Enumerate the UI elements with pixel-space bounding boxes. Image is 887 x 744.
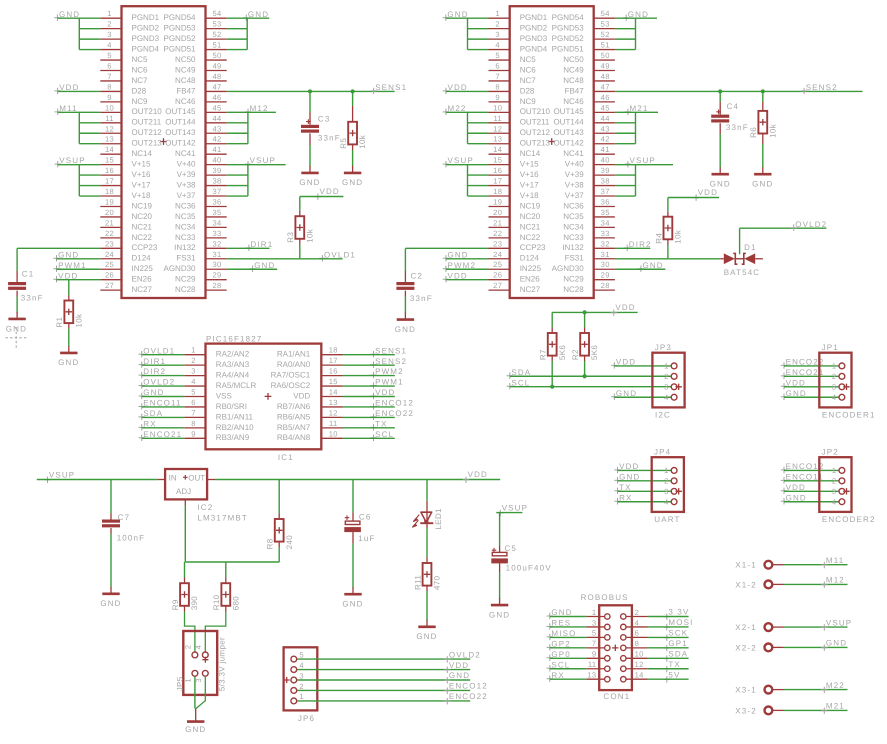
wire R6 to GND xyxy=(762,144,764,168)
IC U2 (right driver) pin 41 stub xyxy=(594,153,615,155)
svg-text:15: 15 xyxy=(493,156,502,165)
pad X1-1 xyxy=(765,561,773,569)
svg-text:VDD: VDD xyxy=(293,391,310,400)
svg-text:TX: TX xyxy=(619,483,632,492)
svg-text:24: 24 xyxy=(493,250,502,259)
svg-text:M21: M21 xyxy=(826,702,845,711)
JP5 origin + xyxy=(202,657,208,663)
wire GND pin54 xyxy=(227,17,270,19)
svg-text:RB7/AN6: RB7/AN6 xyxy=(277,402,311,411)
svg-text:VDD: VDD xyxy=(786,483,806,492)
svg-text:50: 50 xyxy=(212,51,221,60)
wire DIR1 to IC1 pin 2 xyxy=(142,364,185,366)
resistor R1 xyxy=(68,296,70,301)
wire CCP23 to C2 xyxy=(405,247,488,249)
svg-text:42: 42 xyxy=(601,135,610,144)
wire VSUP pin38 r xyxy=(615,185,636,187)
svg-text:PGND2: PGND2 xyxy=(132,24,160,33)
IC U2 (right driver) pin 14 stub xyxy=(489,153,510,155)
svg-text:37: 37 xyxy=(212,187,221,196)
svg-text:5K6: 5K6 xyxy=(558,345,567,360)
svg-text:M11: M11 xyxy=(59,104,77,113)
svg-text:52: 52 xyxy=(212,30,221,39)
wire GND pin53 r xyxy=(615,28,636,30)
wire RX to CON1 pin 13 xyxy=(550,678,587,680)
svg-text:9: 9 xyxy=(107,93,112,102)
svg-text:ENCO22: ENCO22 xyxy=(449,692,488,701)
svg-text:DIR1: DIR1 xyxy=(143,357,166,366)
svg-text:NC48: NC48 xyxy=(563,76,584,85)
wire C1 to GND xyxy=(16,297,18,313)
svg-text:6: 6 xyxy=(495,62,500,71)
svg-text:29: 29 xyxy=(212,271,221,280)
wire VDD down to R1 xyxy=(68,280,70,296)
IC2 ADJ pin stub xyxy=(184,499,186,505)
wire VDD rail from IC2 OUT xyxy=(215,479,500,481)
svg-text:GND: GND xyxy=(786,389,807,398)
svg-text:31: 31 xyxy=(212,250,221,259)
net VSUP pins40-37 rIC right: label xyxy=(625,161,631,167)
svg-text:SENS1: SENS1 xyxy=(375,346,407,355)
svg-text:NC49: NC49 xyxy=(175,65,196,74)
IC U1 (left driver) pin 2 stub xyxy=(100,28,121,30)
IC U1 (left driver) pin 34 stub xyxy=(206,226,227,228)
net GND pin24 rIC: label xyxy=(443,255,449,261)
IC U2 (right driver) pin 52 stub xyxy=(594,38,615,40)
svg-text:R4: R4 xyxy=(654,233,663,244)
svg-text:43: 43 xyxy=(212,124,221,133)
svg-text:TX: TX xyxy=(375,419,388,428)
CON1 pin 4 pad xyxy=(621,624,626,629)
wire VDD down to R2 xyxy=(584,312,586,327)
svg-text:47: 47 xyxy=(601,82,610,91)
net SCK at CON1 pin 6: label xyxy=(664,635,670,641)
svg-text:39: 39 xyxy=(212,166,221,175)
JP4 pin 3 pad xyxy=(671,488,677,494)
svg-text:VSUP: VSUP xyxy=(49,471,75,480)
net VDD at IC1 pin 14: label xyxy=(370,393,376,399)
svg-text:VSUP: VSUP xyxy=(502,503,528,512)
svg-text:36: 36 xyxy=(601,197,610,206)
connector JP1 origin + xyxy=(843,384,849,390)
IC U1 (left driver) pin 31 stub xyxy=(206,258,227,260)
CON1 pin 2 pad xyxy=(621,614,626,619)
svg-text:D124: D124 xyxy=(520,254,540,263)
wire VSUP pin15 r xyxy=(446,164,489,166)
net GND pins1-4 left: label GND xyxy=(54,15,60,21)
svg-text:VDD: VDD xyxy=(58,271,78,280)
JP3 pin 2 pad xyxy=(671,373,677,379)
svg-text:PWM2: PWM2 xyxy=(375,367,404,376)
svg-text:17: 17 xyxy=(105,177,114,186)
svg-text:IC2: IC2 xyxy=(197,503,213,512)
IC U1 (left driver) pin 11 stub xyxy=(100,122,121,124)
wire VDD pin26 r xyxy=(446,279,489,281)
svg-text:NC46: NC46 xyxy=(175,97,196,106)
wire VSUP pin15 xyxy=(58,164,101,166)
svg-text:28: 28 xyxy=(601,281,610,290)
wire R10 to JP5 pin4 xyxy=(205,612,226,652)
wire M21 pin44 xyxy=(615,122,636,124)
IC U2 (right driver) pin 34 stub xyxy=(594,226,615,228)
svg-text:9: 9 xyxy=(495,93,500,102)
svg-text:PGND51: PGND51 xyxy=(552,44,585,53)
IC U1 (left driver) pin 18 stub xyxy=(100,195,121,197)
wire VSUP from X2-1 xyxy=(784,626,848,628)
svg-text:D1: D1 xyxy=(744,243,757,252)
svg-text:PWM1: PWM1 xyxy=(58,261,87,270)
svg-text:GND: GND xyxy=(616,389,637,398)
svg-text:34: 34 xyxy=(601,218,610,227)
connector JP5 (jumper) body xyxy=(183,631,217,695)
IC U1 (left driver) pin 30 stub xyxy=(206,268,227,270)
label M21 (X3-2) xyxy=(821,708,827,714)
IC U2 (right driver) pin 23 stub xyxy=(489,247,510,249)
svg-text:PGND1: PGND1 xyxy=(520,13,548,22)
CON1 pin 12 stub xyxy=(626,668,648,670)
svg-text:26: 26 xyxy=(493,271,502,280)
net SDA at CON1 pin 10: label xyxy=(664,655,670,661)
IC U2 (right driver) pin 48 stub xyxy=(594,80,615,82)
IC U2 (right driver) pin 50 stub xyxy=(594,59,615,61)
junction SENS1/C3 xyxy=(308,89,312,93)
IC U1 (left driver) pin 35 stub xyxy=(206,216,227,218)
ground below C2 xyxy=(404,313,406,320)
svg-text:4: 4 xyxy=(832,497,837,506)
svg-text:FS31: FS31 xyxy=(176,254,196,263)
wire GND pin4 r xyxy=(468,49,489,51)
IC U2 (right driver) pin 36 stub xyxy=(594,205,615,207)
wire ENCO21 to IC1 pin 9 xyxy=(142,437,185,439)
label GND (JP6) xyxy=(444,677,450,683)
wire M11 bus vertical xyxy=(78,112,80,143)
svg-text:NC5: NC5 xyxy=(520,55,537,64)
IC U1 (left driver) pin 8 stub xyxy=(100,90,121,92)
JP6 pin 1 pad xyxy=(291,698,297,704)
svg-text:R2: R2 xyxy=(571,349,580,360)
svg-text:LED1: LED1 xyxy=(434,508,443,530)
wire TX from IC1 pin 11 xyxy=(343,427,395,429)
wire VSUP stub at C5 xyxy=(496,512,522,514)
capacitor C6 (polarized) xyxy=(352,513,354,522)
svg-text:SCL: SCL xyxy=(375,430,394,439)
svg-text:NC29: NC29 xyxy=(563,275,584,284)
svg-text:NC50: NC50 xyxy=(563,55,584,64)
svg-text:470: 470 xyxy=(433,575,442,590)
svg-text:M22: M22 xyxy=(826,681,845,690)
wire VSUP pin18 r xyxy=(468,195,489,197)
wire VSUP bus rIC r xyxy=(635,165,637,196)
label ENCO12 (JP6) xyxy=(444,688,450,694)
CON1 pin 10 stub xyxy=(626,657,648,659)
wire M21 from X3-2 xyxy=(784,709,848,711)
wire M12 pin45 xyxy=(227,111,276,113)
IC1 pin 16 stub xyxy=(321,375,342,377)
svg-text:RB3/AN9: RB3/AN9 xyxy=(216,433,250,442)
net GND pins54-51 rIC: label xyxy=(623,15,629,21)
net GND pin24: label xyxy=(53,255,59,261)
net VSUP pins15-18: label xyxy=(55,161,61,167)
svg-text:VSUP: VSUP xyxy=(826,618,852,627)
JP2 pin 3 pad xyxy=(839,488,845,494)
resistor R10 xyxy=(225,578,227,584)
label VSUP (X2-1) xyxy=(821,624,827,630)
svg-text:4: 4 xyxy=(664,393,669,402)
svg-text:NC22: NC22 xyxy=(132,233,153,242)
IC U2 (right driver) pin 29 stub xyxy=(594,279,615,281)
svg-text:44: 44 xyxy=(601,114,610,123)
wire M22 pin12 xyxy=(468,132,489,134)
wire ENCO21 to JP1 pin 2 xyxy=(784,375,839,377)
wire GND pin2 r xyxy=(468,28,489,30)
IC2 OUT pin stub xyxy=(207,479,215,481)
wire VDD to JP1 pin 3 xyxy=(784,386,839,388)
X1-1 stub xyxy=(773,564,784,566)
wire M12 pin42 xyxy=(227,143,248,145)
X2-2 stub xyxy=(773,646,784,648)
svg-text:42: 42 xyxy=(212,135,221,144)
svg-text:JP1: JP1 xyxy=(822,343,839,352)
label VDD above R3 xyxy=(315,194,321,200)
IC U2 (right driver) pin 51 stub xyxy=(594,49,615,51)
JP5 pin 1 pad xyxy=(192,670,198,676)
CON1 pin 11 stub xyxy=(586,668,604,670)
svg-text:DIR2: DIR2 xyxy=(143,367,166,376)
svg-text:IC1: IC1 xyxy=(278,453,294,462)
net GND pins54-51: label xyxy=(243,15,249,21)
svg-text:3: 3 xyxy=(664,487,669,496)
svg-text:10k: 10k xyxy=(305,228,314,243)
svg-text:C7: C7 xyxy=(118,513,131,522)
svg-text:VDD: VDD xyxy=(320,187,340,196)
svg-text:23: 23 xyxy=(105,239,114,248)
net VDD from JP6 pin 4: wire xyxy=(297,669,470,671)
svg-text:X1-2: X1-2 xyxy=(735,580,757,589)
wire VDD down to R4 xyxy=(667,198,669,212)
svg-text:10: 10 xyxy=(329,429,338,438)
net OVLD2 from JP6 pin 5: wire xyxy=(297,658,470,660)
wire TX to JP4 pin 3 xyxy=(618,490,672,492)
ground below R6 xyxy=(762,167,764,174)
svg-text:41: 41 xyxy=(601,145,610,154)
svg-text:C2: C2 xyxy=(411,271,424,280)
svg-text:RA0/AN0: RA0/AN0 xyxy=(277,360,311,369)
svg-text:C6: C6 xyxy=(359,513,372,522)
svg-text:54: 54 xyxy=(601,9,610,18)
wire R5 to GND xyxy=(352,150,354,167)
net RX at CON1 pin 13: label xyxy=(547,676,553,682)
IC U2 (right driver) pin 47 stub xyxy=(594,90,615,92)
svg-text:V+37: V+37 xyxy=(177,191,196,200)
JP4 pin 1 pad xyxy=(671,468,677,474)
svg-text:3: 3 xyxy=(592,618,597,627)
svg-text:16: 16 xyxy=(329,367,338,376)
svg-text:RA6/OSC2: RA6/OSC2 xyxy=(271,381,311,390)
IC U2 (right driver) pin 8 stub xyxy=(489,90,510,92)
connector JP2 body xyxy=(819,457,851,512)
wire MOSI from CON1 pin 4 xyxy=(648,626,689,628)
wire SENS1 down to R5 xyxy=(352,91,354,106)
CON1 origin + xyxy=(612,645,618,651)
CON1 pin 6 pad xyxy=(621,635,626,640)
wire R8 bottom to ADJ net xyxy=(278,547,280,562)
IC U1 (left driver) pin 47 stub xyxy=(206,90,227,92)
svg-text:ENCODER2: ENCODER2 xyxy=(822,515,876,524)
svg-text:GND: GND xyxy=(551,608,572,617)
wire D1 center up to OVLD2 xyxy=(739,228,741,254)
CON1 pin 10 pad xyxy=(621,656,626,661)
wire VDD rail of pull-ups xyxy=(552,311,638,313)
net VDD pin8 rIC: label xyxy=(443,88,449,94)
wire C5 to GND xyxy=(499,572,501,599)
svg-text:PGND52: PGND52 xyxy=(163,34,196,43)
svg-text:VDD: VDD xyxy=(619,462,639,471)
svg-text:17: 17 xyxy=(493,177,502,186)
wire SENS1 down to C3 xyxy=(309,91,311,112)
net GND at JP3 pin 4: label xyxy=(611,394,617,400)
IC U1 (left driver) pin 21 stub xyxy=(100,226,121,228)
wire OVLD2 horizontal xyxy=(740,227,827,229)
svg-text:18: 18 xyxy=(329,346,338,355)
CON1 pin 4 stub xyxy=(626,626,648,628)
label OVLD2 (JP6) xyxy=(444,656,450,662)
svg-text:34: 34 xyxy=(212,218,221,227)
IC U2 (right driver) pin 13 stub xyxy=(489,143,510,145)
svg-text:C5: C5 xyxy=(505,544,518,553)
svg-text:GND: GND xyxy=(448,250,469,259)
IC U2 (right driver) pin 54 stub xyxy=(594,17,615,19)
svg-text:2: 2 xyxy=(184,645,193,650)
svg-text:NC9: NC9 xyxy=(520,97,537,106)
CON1 pin 8 stub xyxy=(626,647,648,649)
wire SCL to CON1 pin 11 xyxy=(550,668,587,670)
wire M22 pin11 xyxy=(468,122,489,124)
svg-text:10k: 10k xyxy=(768,123,777,138)
net VDD pin8: label xyxy=(54,88,60,94)
IC1 pin 18 stub xyxy=(321,354,342,356)
wire ENCO22 to JP1 pin 1 xyxy=(784,365,839,367)
svg-text:NC7: NC7 xyxy=(132,76,149,85)
svg-text:44: 44 xyxy=(212,114,221,123)
JP6 pin 5 pad xyxy=(291,656,297,662)
ground below C7 xyxy=(110,587,112,594)
capacitor C3 xyxy=(309,112,311,125)
label M12 (X1-2) xyxy=(821,582,827,588)
svg-text:8: 8 xyxy=(191,419,196,428)
svg-text:48: 48 xyxy=(601,72,610,81)
JP1 pin 2 pad xyxy=(839,373,845,379)
wire down to LED1 xyxy=(426,480,428,501)
IC U2 (right driver) pin 5 stub xyxy=(489,59,510,61)
wire VDD pin8 xyxy=(58,90,101,92)
svg-text:OUT142: OUT142 xyxy=(553,139,584,148)
IC U1 (left driver) pin 52 stub xyxy=(206,38,227,40)
wire R8 top from VDD rail xyxy=(278,480,280,514)
wire M22 pin10 xyxy=(446,111,489,113)
wire RX to IC1 pin 8 xyxy=(142,427,185,429)
wire down to C6 xyxy=(352,480,354,513)
svg-text:5K6: 5K6 xyxy=(590,345,599,360)
JP2 pin 4 pad xyxy=(839,499,845,505)
IC U2 (right driver) pin 25 stub xyxy=(489,268,510,270)
svg-text:4: 4 xyxy=(107,41,112,50)
svg-text:13: 13 xyxy=(493,135,502,144)
label VDD rail xyxy=(463,477,469,483)
svg-text:4: 4 xyxy=(194,645,203,650)
label GND (X2-2) xyxy=(821,645,827,651)
svg-text:13: 13 xyxy=(329,398,338,407)
net M11 pins10-13: label xyxy=(55,109,61,115)
svg-text:RX: RX xyxy=(143,419,156,428)
diode D1 BAT54C xyxy=(720,258,724,260)
svg-text:JP3: JP3 xyxy=(655,343,672,352)
svg-text:IN: IN xyxy=(169,473,177,482)
svg-text:V+40: V+40 xyxy=(565,160,584,169)
wire C3 to GND xyxy=(309,145,311,167)
svg-text:26: 26 xyxy=(105,271,114,280)
IC U1 (left driver) pin 28 stub xyxy=(206,289,227,291)
svg-text:7: 7 xyxy=(107,72,112,81)
svg-text:NC5: NC5 xyxy=(132,55,149,64)
CON1 pin 6 stub xyxy=(626,636,648,638)
wire VSUP pin16 r xyxy=(468,174,489,176)
net SCL: label xyxy=(507,383,513,389)
svg-text:TX: TX xyxy=(668,660,681,669)
wire ENCO12 to JP2 pin 1 xyxy=(784,469,839,471)
svg-text:OUT144: OUT144 xyxy=(165,118,196,127)
svg-text:NC7: NC7 xyxy=(520,76,537,85)
svg-text:NC22: NC22 xyxy=(520,233,541,242)
svg-text:V+17: V+17 xyxy=(132,180,151,189)
net ENCO11 at JP2 pin 2: label xyxy=(781,477,787,483)
JP2 pin 2 pad xyxy=(839,478,845,484)
svg-text:NC33: NC33 xyxy=(563,233,584,242)
wire GP1 from CON1 pin 8 xyxy=(648,647,689,649)
IC U1 (left driver) pin 27 stub xyxy=(100,289,121,291)
svg-text:1: 1 xyxy=(107,9,112,18)
net SENS2 at IC1 pin 17: label xyxy=(370,361,376,367)
net ENCO22 at IC1 pin 12: label xyxy=(370,414,376,420)
svg-text:NC46: NC46 xyxy=(563,97,584,106)
wire R11 to GND xyxy=(426,591,428,621)
svg-text:V+15: V+15 xyxy=(132,160,151,169)
CON1 pin 5 pad xyxy=(605,635,610,640)
wire CCP23 vertical down to C1 xyxy=(16,248,18,271)
wire R4 down to FS31 net xyxy=(667,239,669,245)
JP2 pin 1 pad xyxy=(839,468,845,474)
IC U1 (left driver) pin 51 stub xyxy=(206,49,227,51)
IC U1 (left driver) pin 4 stub xyxy=(100,49,121,51)
CON1 pin 12 pad xyxy=(621,666,626,671)
svg-text:10: 10 xyxy=(635,650,644,659)
connector JP4 body xyxy=(652,457,684,512)
svg-text:13: 13 xyxy=(105,135,114,144)
svg-text:ENCO12: ENCO12 xyxy=(375,399,414,408)
svg-text:20: 20 xyxy=(493,208,502,217)
svg-text:1uF: 1uF xyxy=(358,534,375,543)
svg-text:RX: RX xyxy=(619,493,632,502)
wire PWM1 from IC1 pin 15 xyxy=(343,385,395,387)
pad X3-2 xyxy=(765,707,773,715)
svg-text:OUT210: OUT210 xyxy=(132,107,163,116)
svg-text:C3: C3 xyxy=(318,114,331,123)
svg-text:16: 16 xyxy=(493,166,502,175)
wire GND pin52 xyxy=(227,38,248,40)
svg-text:AGND30: AGND30 xyxy=(552,264,585,273)
svg-text:CON1: CON1 xyxy=(603,692,630,701)
wire ENCO12 from IC1 pin 13 xyxy=(343,406,395,408)
wire VDD from IC1 pin 14 xyxy=(343,396,395,398)
